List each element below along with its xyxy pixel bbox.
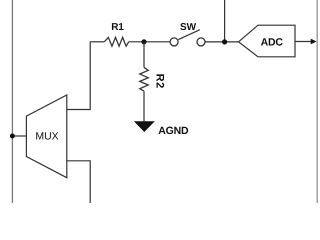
wire: R2 top lead: [143, 42, 145, 68]
svg-text:AGND: AGND: [158, 125, 189, 137]
wire: MUX bottom connection going down off-page: [67, 161, 90, 203]
wire: R2 bottom lead to ground: [143, 91, 145, 122]
resistor R2: [140, 67, 166, 91]
wire: ADC output arrow: [295, 39, 317, 45]
right boundary line: [316, 0, 318, 203]
svg-text:ADC: ADC: [261, 36, 284, 48]
svg-text:SW: SW: [180, 22, 197, 33]
wire: R1 left lead: [90, 41, 104, 43]
svg-text:R1: R1: [111, 22, 124, 33]
ground AGND: [134, 121, 189, 137]
node: junction dot on left boundary line: [10, 134, 15, 139]
svg-text:MUX: MUX: [35, 130, 58, 142]
svg-text:R2: R2: [153, 74, 165, 89]
mux U1: [26, 95, 66, 178]
wire: R1 right lead to switch: [129, 41, 170, 43]
wire: vertical from top edge to junction: [224, 0, 226, 42]
wire: MUX top output to R1 (up then right): [67, 42, 90, 110]
adc U2: [239, 25, 295, 57]
wire: left line to MUX input: [12, 135, 26, 137]
node: junction dot at switch/ADC wire: [222, 39, 227, 44]
node: junction dot R1/R2: [141, 39, 146, 44]
switch SW: [170, 22, 205, 46]
wire: switch to ADC: [205, 41, 239, 43]
left boundary line: [11, 0, 13, 203]
resistor R1: [104, 22, 128, 46]
